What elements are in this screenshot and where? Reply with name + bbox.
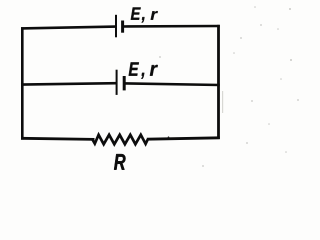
- label E, r (top battery B1): [131, 7, 158, 22]
- battery B1 long plate (+): [115, 15, 117, 38]
- label R (resistor): [114, 154, 125, 170]
- wire battery B2 to middle-right: [124, 83, 220, 85]
- wire left vertical: [21, 27, 24, 139]
- wire top-left to battery B1: [21, 27, 116, 29]
- wire bottom-left to resistor R: [21, 138, 95, 139]
- scan bump on wire right of resistor: [168, 136, 170, 138]
- battery B2 long plate (+): [116, 70, 118, 95]
- wire middle-left to battery B2: [21, 83, 117, 84]
- label E, r (middle battery B2): [129, 62, 158, 78]
- wire right vertical: [217, 25, 220, 139]
- resistor R zigzag: [93, 135, 148, 144]
- wire battery B1 to top-right: [123, 25, 220, 28]
- battery B2 short plate (-): [123, 76, 126, 90]
- scan speckles (decorative noise): [159, 6, 299, 167]
- battery B1 short plate (-): [121, 21, 124, 33]
- wire resistor R to bottom-right: [147, 138, 220, 139]
